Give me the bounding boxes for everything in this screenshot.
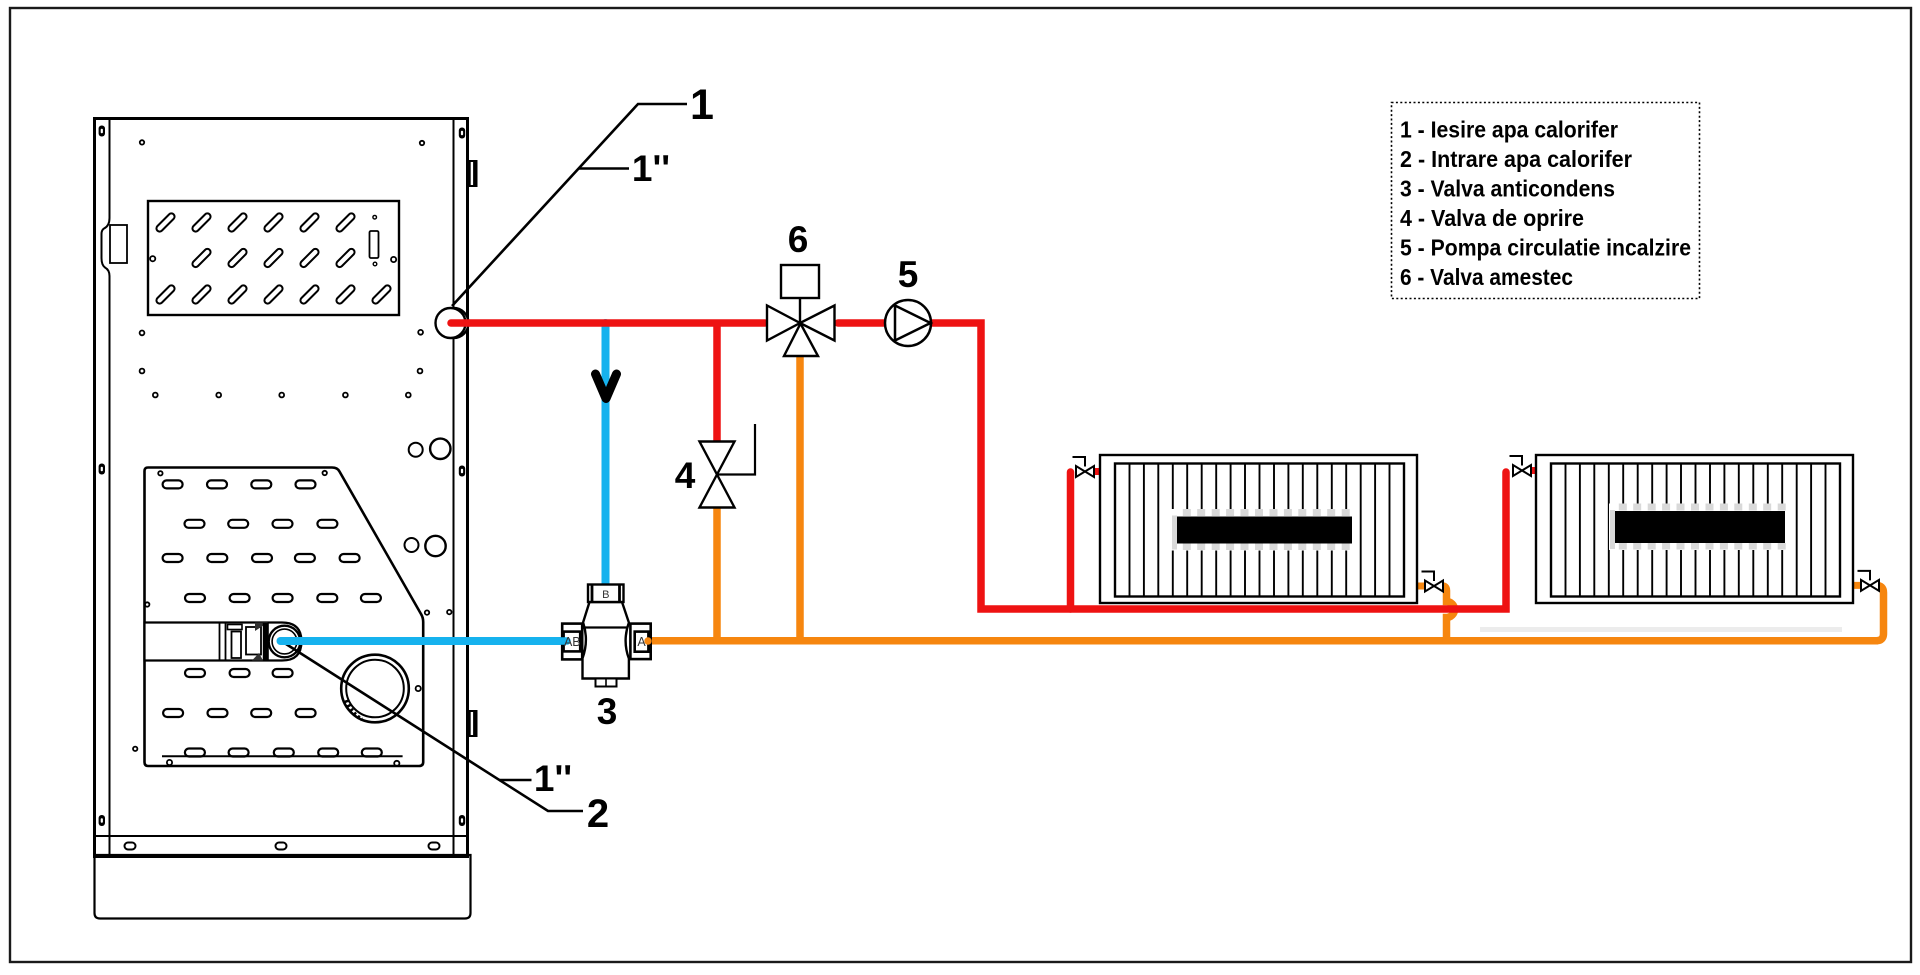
- svg-text:6: 6: [788, 219, 809, 260]
- top perforated panel: [148, 201, 399, 315]
- callout line 1 (supply): [452, 104, 687, 306]
- wire: orange return main line: [648, 637, 1878, 645]
- right hinge bottom: [467, 710, 478, 737]
- wire: red stub into radiator 1: [1092, 468, 1103, 475]
- right hinge top: [467, 160, 478, 187]
- boiler cabinet outline: [95, 119, 468, 857]
- top panel vertical slot: [370, 231, 379, 258]
- flow arrow V on blue pipe: [596, 374, 617, 399]
- svg-text:A: A: [637, 635, 646, 649]
- burner assembly band: [145, 623, 302, 661]
- lower perforated panel (pentagon): [145, 468, 424, 767]
- wire: red pump to elbow, down and across to radiator 2 riser: [932, 323, 1506, 609]
- wire: blue bypass vertical into valve 3 port B: [602, 323, 610, 588]
- wire: orange radiator2 drop: [1876, 585, 1884, 640]
- lower panel underline: [162, 755, 403, 757]
- boiler return water port circle (blue): [269, 626, 301, 658]
- radiator 2 fins: [1566, 464, 1826, 597]
- radiator 2 outlet valve: [1858, 571, 1880, 591]
- svg-text:1'': 1'': [632, 148, 670, 189]
- legend box: [1392, 103, 1700, 299]
- lower panel horizontal slots: [163, 480, 382, 756]
- svg-text:1'': 1'': [534, 758, 572, 799]
- svg-text:4: 4: [675, 455, 696, 496]
- wire: orange stub radiator1 outlet: [1415, 583, 1426, 590]
- boiler base plinth: [95, 855, 471, 919]
- svg-text:AB: AB: [564, 635, 581, 649]
- wire: orange radiator1 drop with bump over red: [1442, 586, 1455, 642]
- radiator 2 inlet valve: [1510, 456, 1532, 476]
- svg-text:4 - Valva de oprire: 4 - Valva de oprire: [1400, 205, 1584, 231]
- svg-text:1 - Iesire apa calorifer: 1 - Iesire apa calorifer: [1400, 117, 1618, 143]
- faint artifact line under radiator 2: [1480, 627, 1842, 632]
- flue ring: [341, 655, 409, 723]
- radiator 1 inlet valve: [1073, 457, 1095, 477]
- burner internal details: [220, 623, 262, 660]
- boiler bottom band line: [96, 854, 466, 856]
- wire: red stub into radiator 2: [1528, 467, 1540, 474]
- callout line 2 (return): [286, 644, 583, 811]
- radiator 1 outlet valve: [1422, 572, 1444, 592]
- valve 6 (mixing valve, 3-way): [767, 265, 835, 356]
- wire: red valve6 to pump: [838, 319, 884, 327]
- boiler door right edge: [453, 120, 455, 855]
- svg-text:2 - Intrare apa calorifer: 2 - Intrare apa calorifer: [1400, 146, 1632, 172]
- wire: orange drop from mixing valve 6: [796, 356, 804, 640]
- radiator 2 black label: [1615, 511, 1785, 543]
- top panel slanted louver slots: [155, 212, 392, 305]
- wire: red riser to radiator 1 valve: [1067, 472, 1075, 609]
- wire: blue return from boiler to valve 3: [281, 637, 565, 645]
- wire: red branch down to valve 4: [713, 323, 721, 446]
- svg-text:3: 3: [597, 691, 618, 732]
- door knockout circles pair lower: [405, 538, 419, 552]
- wire: red supply boiler to valve 6: [451, 319, 765, 327]
- blue pipe end inside AB port: [556, 637, 567, 645]
- radiator 1 body: [1100, 455, 1417, 603]
- orange pipe end inside A port: [644, 637, 651, 644]
- radiator 1 black label: [1177, 517, 1352, 544]
- valve 4 (stop valve): [700, 424, 756, 508]
- callout tick 1 inch top: [579, 167, 629, 170]
- radiator 2 body: [1536, 455, 1853, 603]
- wire: orange drop from valve 4: [713, 504, 721, 640]
- svg-text:5 - Pompa circulatie incalzire: 5 - Pompa circulatie incalzire: [1400, 235, 1691, 261]
- svg-text:5: 5: [898, 254, 919, 295]
- svg-text:6 - Valva amestec: 6 - Valva amestec: [1400, 264, 1573, 290]
- cabinet edge screws: [99, 126, 466, 827]
- door rivet dots: [133, 140, 451, 766]
- radiator 1 fins: [1130, 464, 1390, 597]
- pump 5 (circulation pump): [885, 300, 931, 346]
- door knockout circles pair upper: [405, 439, 451, 557]
- radiator 2 label redaction: [1609, 504, 1790, 551]
- radiator 1 label redaction: [1171, 509, 1357, 551]
- valve 3 (anticondensation valve): [562, 585, 651, 687]
- base band oval screws: [125, 843, 440, 850]
- boiler door latch rect: [110, 225, 127, 263]
- svg-text:3 - Valva anticondens: 3 - Valva anticondens: [1400, 176, 1615, 202]
- boiler supply water port circle (red): [439, 308, 469, 338]
- svg-text:2: 2: [587, 792, 609, 836]
- svg-text:B: B: [602, 589, 609, 601]
- callout tick 1 inch bottom: [499, 779, 532, 782]
- boiler door left edge with hinge knuckle: [102, 120, 110, 855]
- svg-text:1: 1: [690, 81, 714, 129]
- boiler door bottom line: [96, 835, 466, 837]
- wire: orange stub radiator2 outlet: [1850, 582, 1862, 589]
